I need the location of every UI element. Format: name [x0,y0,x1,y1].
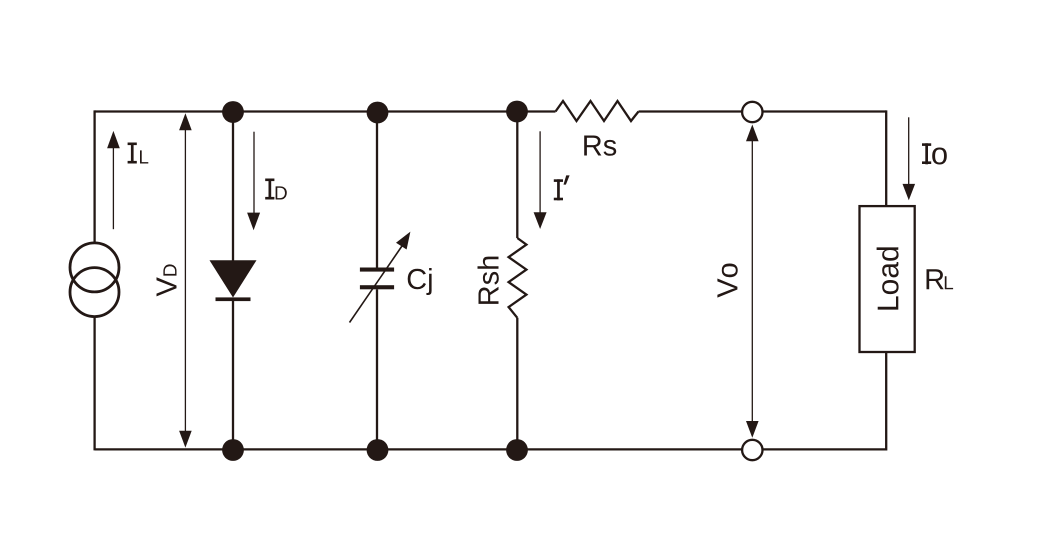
label Vo [717,264,737,298]
node A top diode junction [222,101,244,123]
label VD [157,264,177,296]
wire top rail right segment [639,110,887,112]
node C top Rsh junction [506,101,528,123]
wire capacitor branch [376,112,378,450]
wire right branch [885,110,887,450]
load box [860,206,915,352]
wire diode branch [232,112,234,450]
wire left branch [93,110,95,450]
label Rsh [478,257,499,304]
label ID [265,179,287,200]
arrow Io [903,117,916,200]
wire Rsh branch top [516,112,518,239]
label Cj [408,268,432,295]
wire top rail left segment [95,110,556,112]
label Rs [584,136,616,156]
node F bottom Rsh junction [506,439,528,461]
output terminal top [742,102,762,122]
label Load [877,247,899,309]
output terminal bottom [742,440,762,460]
diode D1 [210,260,257,301]
arrow Vo double [746,125,759,438]
arrow IL [107,131,120,229]
arrow VD double [179,113,192,447]
capacitor Cj variable arrow [350,232,411,323]
node B top capacitor junction [367,102,389,124]
node E bottom capacitor junction [367,439,389,461]
wire bottom rail [95,448,887,450]
label IL [128,143,149,164]
arrow I' [534,131,547,229]
current source CS1 [70,243,119,292]
label Io [922,143,947,164]
arrow ID [247,132,260,231]
label I prime [554,175,570,200]
capacitor Cj plates [360,268,394,290]
resistor Rsh [509,238,527,318]
wire Rsh branch bottom [516,318,518,450]
label RL [927,269,954,289]
node D bottom diode junction [222,439,244,461]
resistor Rs [556,101,639,121]
